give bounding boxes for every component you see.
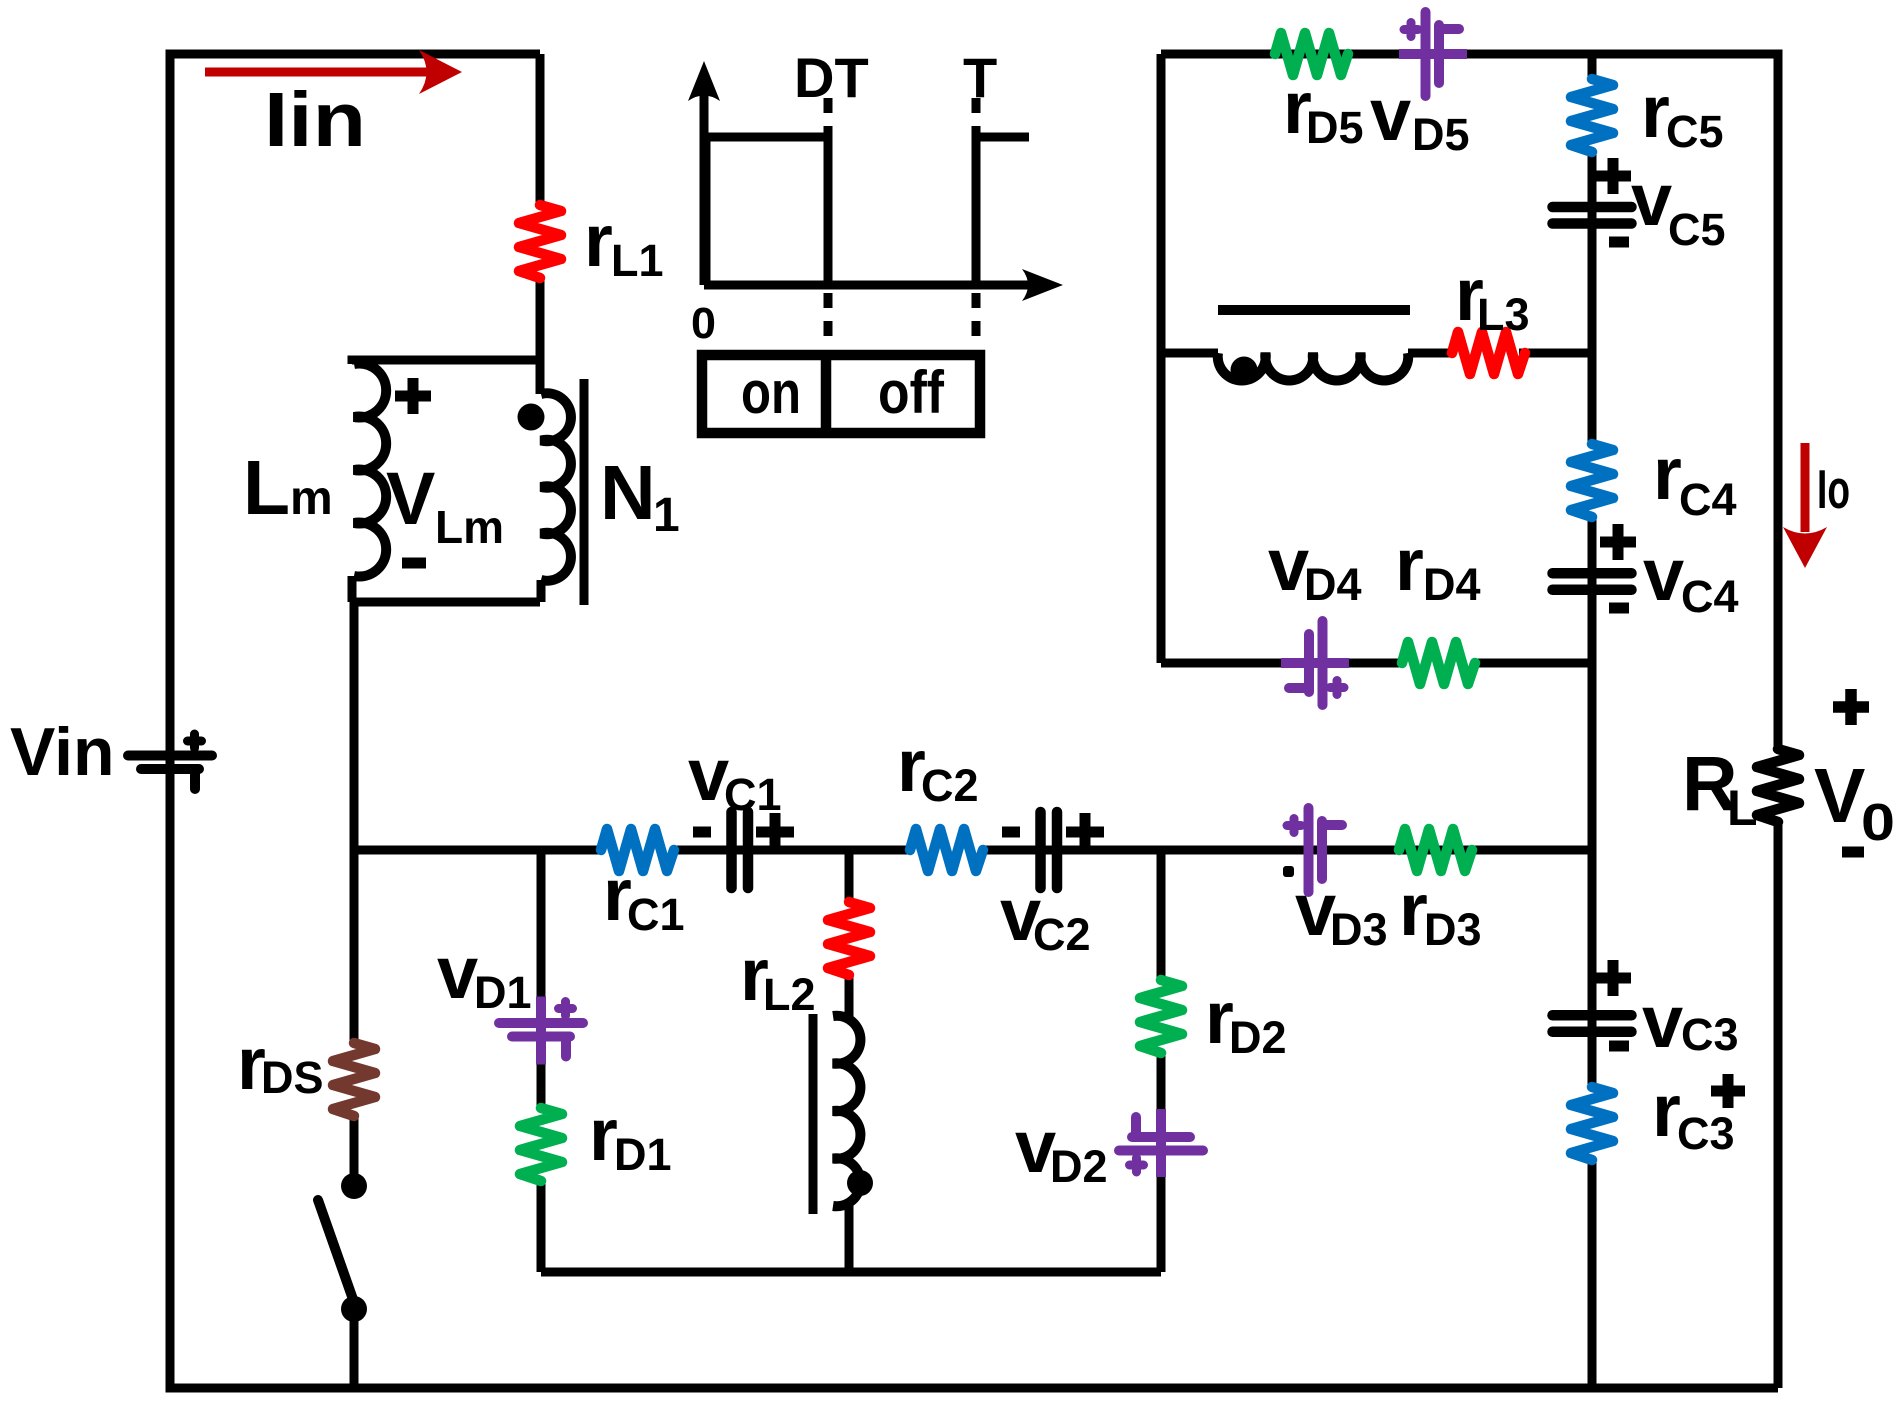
diode source vD2 (1119, 1109, 1203, 1177)
wire middle bus segment 1 (354, 846, 601, 855)
wire L2 coil to sub-rail (845, 1202, 854, 1272)
resistor rC4 (1571, 444, 1613, 517)
wire rL1 to transformer N1 top (536, 278, 545, 394)
svg-text:C4: C4 (1679, 474, 1737, 525)
plus rC3 polarity (1711, 1074, 1745, 1108)
svg-text:0: 0 (1861, 794, 1895, 852)
resistor rD1 (520, 1108, 562, 1181)
svg-text:off: off (878, 359, 945, 426)
resistor rDS (333, 1043, 375, 1116)
wire sub-rail (541, 1268, 1161, 1277)
svg-text:DT: DT (794, 46, 869, 109)
svg-text:L: L (1727, 780, 1758, 836)
svg-text:r: r (1653, 432, 1682, 515)
resistor rL1 (519, 205, 561, 278)
inductor L2 dot (847, 1170, 873, 1196)
waveform square pulse (706, 137, 828, 285)
transformer core bar (580, 379, 589, 605)
wire rL1 branch upper (536, 54, 545, 205)
wire middle bus segment 3 (983, 846, 1592, 855)
plus vC2 (1066, 813, 1104, 851)
inductor L3 dot (1231, 357, 1258, 384)
current arrow Io (1801, 443, 1810, 532)
plus vC4 (1600, 524, 1636, 560)
svg-text:r: r (584, 199, 613, 282)
wire box bottom segment 2 (1474, 659, 1592, 668)
svg-text:Iin: Iin (264, 77, 366, 163)
svg-text:C1: C1 (627, 889, 685, 940)
svg-text:m: m (290, 472, 333, 525)
svg-text:v: v (1642, 980, 1683, 1063)
wire vD2 branch (1157, 850, 1166, 980)
minus vC4 (1609, 603, 1629, 614)
svg-text:L2: L2 (763, 969, 816, 1020)
svg-text:T: T (963, 46, 997, 109)
wire Lm/N1 bottom (352, 576, 541, 602)
wire rD1 to sub-rail (537, 1181, 546, 1272)
inductor L3 coil (1218, 353, 1409, 380)
svg-text:v: v (688, 733, 729, 816)
svg-text:L1: L1 (611, 235, 664, 286)
dashed marker DT (824, 98, 833, 340)
resistor rD5 (1275, 33, 1348, 75)
minus vC1 (693, 827, 711, 838)
svg-text:C5: C5 (1666, 106, 1724, 157)
svg-text:C1: C1 (724, 769, 782, 820)
wire output box left edge (1157, 54, 1166, 663)
inductor Lm winding (354, 364, 386, 577)
current arrow Iin (205, 68, 430, 77)
plus vC3 (1595, 960, 1631, 996)
svg-text:D1: D1 (474, 967, 532, 1018)
wire outer loop: top-left, left rail, bottom rail (170, 54, 1778, 1388)
wire rDS to switch (350, 1113, 359, 1178)
wire switch to bottom rail (350, 1309, 359, 1388)
minus vC2 (1002, 827, 1020, 838)
svg-text:D1: D1 (614, 1129, 672, 1180)
plus V0 (1833, 689, 1869, 725)
wire right-mid vertical rC5..rC4 (1588, 150, 1597, 444)
svg-text:DS: DS (261, 1052, 324, 1103)
wire L2 branch: bus to rL2 (845, 850, 854, 902)
diode source vD3 (1287, 808, 1342, 892)
minus VLm (402, 558, 426, 569)
stray dot vD3 (1283, 866, 1294, 877)
svg-text:1: 1 (653, 489, 680, 542)
svg-text:v: v (1370, 73, 1411, 156)
svg-text:C5: C5 (1668, 204, 1726, 255)
diode source vD1 (499, 997, 583, 1065)
svg-text:V: V (1814, 753, 1865, 839)
capacitor vC1 (732, 812, 749, 888)
wire left-mid vertical to rDS (350, 602, 359, 1045)
resistor RL load (1757, 749, 1799, 822)
wire right-mid vertical rC4..rC3 (1588, 517, 1597, 1087)
switch top node dot (341, 1173, 367, 1199)
inductor L2 core bar (809, 1014, 818, 1214)
wire rL3 to right vertical (1519, 349, 1592, 358)
wire L3 to rL3 (1408, 349, 1452, 358)
resistor rC5 (1571, 79, 1613, 152)
svg-text:v: v (1268, 523, 1309, 606)
on/off box (702, 355, 980, 433)
svg-text:C3: C3 (1677, 1108, 1735, 1159)
svg-text:N: N (600, 450, 656, 536)
inductor L2 coil (833, 1016, 860, 1207)
minus vC3 (1609, 1041, 1629, 1052)
plus vC1 (756, 813, 794, 851)
svg-text:D4: D4 (1304, 559, 1362, 610)
wire rL2 to L2 coil (845, 976, 854, 1022)
wire right-mid vertical rC3 to bottom (1588, 1161, 1597, 1388)
svg-text:V: V (386, 457, 435, 540)
wire right-mid vertical top (1588, 54, 1597, 79)
waveform next period edge at T (976, 137, 1029, 285)
svg-text:D5: D5 (1306, 102, 1364, 153)
resistor rL2 (828, 902, 870, 975)
resistor rD4 (1402, 642, 1475, 684)
capacitor vC5 (1553, 207, 1632, 224)
diode source vD5 (1399, 12, 1467, 96)
svg-text:C4: C4 (1681, 571, 1739, 622)
svg-text:C3: C3 (1681, 1009, 1739, 1060)
wire Lm top (352, 360, 540, 364)
svg-text:Vin: Vin (10, 714, 115, 790)
minus V0 (1842, 847, 1864, 858)
wire right rail upper + top-right wire (1161, 54, 1778, 749)
wire box bottom segment 1 (1161, 659, 1402, 668)
capacitor vC2 (1041, 812, 1058, 888)
svg-text:v: v (1631, 158, 1672, 241)
svg-text:C2: C2 (921, 760, 979, 811)
svg-text:0: 0 (691, 299, 716, 348)
capacitor vC3 (1553, 1015, 1632, 1032)
dashed marker T (972, 98, 981, 340)
wire right rail lower segment (1774, 821, 1783, 1388)
wire rD2 to vD2 to sub-rail (1157, 1050, 1166, 1272)
svg-text:D2: D2 (1050, 1141, 1108, 1192)
waveform vertical axis (700, 95, 709, 285)
plus VLm (395, 378, 431, 414)
capacitor vC4 (1553, 573, 1632, 590)
wire middle bus segment 2 (673, 846, 910, 855)
svg-text:L3: L3 (1477, 289, 1530, 340)
inductor L3 core bar (1218, 305, 1410, 315)
inductor N1 winding (541, 393, 571, 581)
svg-text:on: on (741, 359, 801, 426)
svg-text:D5: D5 (1412, 109, 1470, 160)
resistor rD3 (1399, 829, 1472, 871)
minus vC5 (1609, 237, 1629, 248)
svg-text:D4: D4 (1423, 559, 1481, 610)
svg-text:v: v (437, 931, 478, 1014)
waveform horizontal axis (704, 281, 1028, 290)
resistor rC1 (601, 829, 674, 871)
svg-text:L: L (243, 445, 290, 531)
svg-text:D2: D2 (1229, 1012, 1287, 1063)
switch blade (318, 1200, 355, 1305)
svg-text:Lm: Lm (435, 501, 504, 553)
svg-text:D3: D3 (1330, 904, 1388, 955)
switch bottom node dot (341, 1296, 367, 1322)
svg-text:r: r (1395, 523, 1424, 606)
svg-text:D3: D3 (1424, 904, 1482, 955)
wire L3 left (1161, 349, 1218, 358)
svg-text:C2: C2 (1033, 909, 1091, 960)
diode source vD4 (1281, 621, 1349, 705)
resistor rL3 (1452, 332, 1525, 374)
wire vD1 branch upper (537, 850, 546, 1108)
resistor rD2 (1140, 980, 1182, 1053)
transformer dot N1 (518, 404, 545, 431)
battery Vin (128, 734, 212, 789)
svg-text:Io: Io (1817, 458, 1850, 520)
resistor rC3 (1571, 1087, 1613, 1160)
plus vC5 (1595, 158, 1631, 194)
svg-text:v: v (1643, 533, 1684, 616)
resistor rC2 (910, 829, 983, 871)
